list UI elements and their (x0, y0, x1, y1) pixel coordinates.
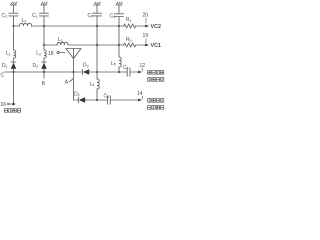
arrow pin 12 (138, 71, 142, 74)
svg-text:D3: D3 (83, 63, 89, 69)
svg-text:L6: L6 (90, 81, 95, 87)
wire V5 (C4 to rail2) (118, 17, 120, 46)
svg-text:C7: C7 (123, 65, 129, 71)
wire V1 (L1 to D1) (13, 58, 15, 62)
wire rail1 left (14, 25, 20, 27)
svg-text:C4: C4 (110, 13, 116, 19)
inductor L6 (97, 79, 99, 89)
svg-text:C: C (1, 73, 5, 79)
wire V4 (rail3 to L6) (96, 72, 98, 79)
junction (rail3/V5) (118, 71, 120, 73)
inductor L2 (44, 50, 46, 58)
svg-text:VC2: VC2 (151, 24, 162, 30)
wire rail4 left (74, 99, 79, 101)
junction (rail3/V1) (12, 71, 14, 73)
wire rail4 right to pin14 (110, 99, 139, 101)
junction (rail3/antenna stem) (72, 71, 74, 73)
junction (rail4/V4) (96, 99, 98, 101)
pin 19 lead tick (145, 38, 147, 43)
diode D2 (41, 62, 46, 72)
capacitor C7 (127, 68, 130, 76)
wire R1 to VC2 arrow (136, 25, 146, 27)
svg-text:L2: L2 (36, 51, 41, 57)
junction (rail1/V1) (12, 25, 14, 27)
wire rail1 main (32, 25, 125, 27)
diode D1 (11, 62, 16, 72)
capacitor C1 (40, 13, 49, 16)
inductor L1 (14, 50, 16, 58)
pin 14 annotation text (tiny CJK rendered as glyph blocks) (148, 99, 164, 110)
ground (top, above C1) (41, 2, 47, 13)
capacitor C2 (9, 13, 18, 16)
wire pin16 lead (9, 103, 12, 105)
wire V1 mid (rail1 to L1) (13, 26, 15, 50)
ground (top, above C3) (94, 2, 100, 13)
pin 12 lead tick (141, 68, 143, 71)
antenna symbol (pin 18) (66, 49, 81, 59)
svg-text:L1: L1 (6, 51, 11, 57)
wire rail3 right to pin12 (130, 71, 139, 73)
svg-text:L3: L3 (58, 37, 63, 43)
inductor L4 (20, 23, 32, 26)
capacitor C3 (93, 13, 102, 16)
svg-text:C3: C3 (88, 13, 94, 19)
capacitor C4 (115, 14, 124, 17)
node B stub (43, 72, 45, 78)
svg-text:C8: C8 (104, 93, 110, 99)
arrow to VC1 (145, 44, 149, 47)
svg-text:D2: D2 (33, 63, 39, 69)
svg-text:D4: D4 (74, 91, 80, 97)
pin 14 lead tick (141, 96, 143, 99)
svg-text:18: 18 (48, 51, 54, 57)
junction (rail1/V2) (43, 25, 45, 27)
wire V4 (C3 to rail3) (96, 16, 98, 72)
pin 16 terminal circle (7, 103, 9, 105)
svg-text:D1: D1 (2, 63, 8, 69)
wire rail2 left (44, 44, 57, 46)
svg-text:C1: C1 (32, 13, 38, 19)
svg-text:16: 16 (1, 102, 7, 108)
resistor R1 (124, 24, 136, 28)
pin 20 lead tick (145, 18, 147, 24)
junction (rail1/V5) (118, 25, 120, 27)
wire V2 (rail2 to L2) (43, 45, 45, 50)
junction (rail2/V5) (118, 44, 120, 46)
svg-text:14: 14 (137, 91, 143, 97)
wire rail2 main (68, 44, 124, 46)
wire rail4 mid (85, 99, 107, 101)
pin 16 annotation text (tiny CJK rendered as glyph blocks) (4, 109, 20, 113)
wire V1 lower (rail3 to pin16 dot) (13, 72, 15, 104)
inductor L3 (57, 42, 68, 45)
node A tick (70, 79, 73, 82)
wire rail3 mid (89, 71, 127, 73)
junction (rail3/V4) (96, 71, 98, 73)
wire V2 (C1 to rail2) (43, 16, 45, 45)
pin 12 annotation text (tiny CJK rendered as glyph blocks) (148, 71, 164, 82)
inductor L5 (119, 57, 121, 67)
svg-text:20: 20 (143, 13, 149, 19)
wire V5 (rail2 to L5) (118, 45, 120, 57)
svg-text:C2: C2 (2, 13, 8, 19)
wire V5 (L5 to rail3) (118, 67, 120, 72)
junction (rail1/V4) (96, 25, 98, 27)
ground (top, above C4) (116, 2, 122, 13)
junction (rail2/V4) (96, 44, 98, 46)
resistor R2 (124, 43, 136, 47)
wire antenna stem to rail4 corner (73, 59, 75, 101)
svg-text:R2: R2 (126, 37, 132, 43)
pin 16 terminal dot (12, 103, 15, 106)
junction (rail3/V2) (43, 71, 45, 73)
svg-text:R1: R1 (126, 17, 132, 23)
svg-text:19: 19 (143, 33, 149, 39)
svg-text:12: 12 (140, 63, 146, 69)
diode D3 (82, 69, 89, 74)
wire rail3 left (5, 71, 83, 73)
pin 18 terminal circle (57, 51, 59, 53)
wire pin18 to antenna (59, 52, 65, 54)
wire V2 (L2 to D2) (43, 58, 45, 62)
wire V1 upper (C2 to rail1) (13, 16, 15, 26)
svg-text:L4: L4 (22, 18, 27, 24)
svg-text:L5: L5 (111, 61, 116, 67)
wire R2 to VC1 arrow (136, 44, 146, 46)
arrow pin 14 (138, 99, 142, 102)
svg-text:VC1: VC1 (151, 43, 162, 49)
diode D4 (78, 97, 85, 102)
arrow to VC2 (145, 25, 149, 28)
junction (rail2/V2) (43, 44, 45, 46)
wire V4 (L6 to rail4) (96, 89, 98, 100)
capacitor C8 (108, 96, 111, 104)
ground (top, above C2) (11, 2, 17, 13)
